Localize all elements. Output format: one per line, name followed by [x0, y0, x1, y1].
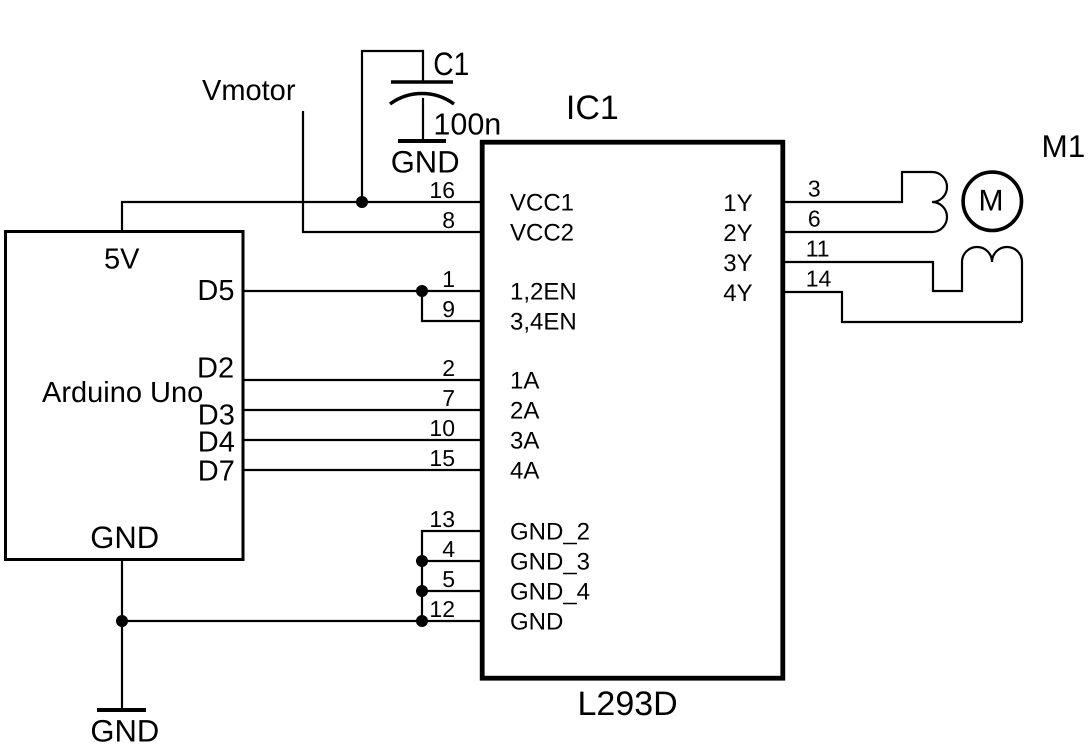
svg-text:GND: GND	[510, 609, 563, 636]
wire D4 to 3A	[243, 439, 480, 441]
svg-text:7: 7	[442, 385, 455, 411]
wire 1Y pin 3 to coil	[784, 172, 932, 202]
svg-text:2Y: 2Y	[723, 220, 752, 247]
wire D2 to 1A	[243, 379, 480, 381]
wire coil 2 right side down	[1021, 262, 1023, 322]
svg-text:15: 15	[429, 445, 455, 471]
svg-text:M1: M1	[1042, 128, 1086, 164]
svg-text:2: 2	[442, 355, 455, 381]
wire GND bus to pin 12	[122, 620, 480, 622]
svg-text:1,2EN: 1,2EN	[510, 279, 577, 306]
svg-text:1A: 1A	[510, 368, 539, 395]
svg-text:GND: GND	[90, 520, 159, 555]
svg-text:1: 1	[442, 266, 455, 292]
svg-text:4Y: 4Y	[723, 280, 752, 307]
capacitor C1 top wire	[362, 51, 423, 202]
ground symbol bottom	[97, 708, 146, 712]
wire Arduino GND down	[121, 560, 123, 711]
junction dot pin 12	[416, 615, 428, 627]
svg-text:Arduino Uno: Arduino Uno	[42, 377, 203, 409]
svg-text:9: 9	[442, 296, 455, 322]
svg-text:2A: 2A	[510, 398, 539, 425]
junction dot VCC1/C1	[356, 196, 368, 208]
svg-text:13: 13	[429, 506, 455, 532]
motor coil winding 2	[962, 247, 1022, 262]
ground symbol at C1	[398, 139, 446, 143]
svg-text:GND_4: GND_4	[510, 579, 590, 606]
svg-text:100n: 100n	[433, 107, 501, 141]
svg-text:VCC2: VCC2	[510, 220, 574, 247]
wire D7 to 4A	[243, 469, 480, 471]
capacitor C1 top plate	[391, 80, 453, 84]
svg-text:M: M	[979, 185, 1004, 218]
svg-text:IC1: IC1	[566, 89, 619, 127]
wire 4Y pin 14 to coil	[784, 292, 1022, 322]
svg-text:3,4EN: 3,4EN	[510, 309, 577, 336]
svg-text:14: 14	[806, 266, 832, 292]
wire D5 to 1,2EN	[243, 290, 480, 292]
svg-text:D2: D2	[197, 353, 234, 385]
wire GND_4 pin 5	[422, 590, 480, 592]
svg-text:10: 10	[429, 415, 455, 441]
wire GND_3 pin 4	[422, 560, 480, 562]
svg-text:L293D: L293D	[578, 685, 678, 723]
motor coil winding 1	[932, 172, 947, 232]
junction dot D5/EN	[416, 285, 428, 297]
svg-text:C1: C1	[433, 46, 469, 82]
svg-text:VCC1: VCC1	[510, 190, 574, 217]
svg-text:5: 5	[442, 566, 455, 592]
svg-text:GND: GND	[90, 714, 159, 749]
capacitor C1 bottom lead	[422, 98, 424, 141]
svg-text:4: 4	[442, 536, 455, 562]
wire D3 to 2A	[243, 409, 480, 411]
wire 2Y pin 6 to coil	[784, 231, 932, 233]
svg-text:1Y: 1Y	[723, 190, 752, 217]
svg-text:D7: D7	[198, 456, 235, 488]
svg-text:GND_2: GND_2	[510, 519, 590, 546]
svg-text:3A: 3A	[510, 428, 539, 455]
svg-text:5V: 5V	[104, 244, 140, 276]
svg-text:16: 16	[429, 177, 455, 203]
svg-text:3Y: 3Y	[723, 250, 752, 277]
svg-text:8: 8	[442, 207, 455, 233]
capacitor C1 curved plate	[390, 93, 454, 104]
motor M1 body circle	[963, 172, 1021, 230]
wire 5V to VCC1 net	[122, 202, 480, 231]
wire Vmotor to VCC2	[303, 111, 480, 232]
junction dot pin 4	[416, 555, 428, 567]
wire GND_2 pin 13	[422, 531, 480, 621]
junction dot pin 5	[416, 585, 428, 597]
svg-text:11: 11	[806, 236, 830, 262]
module A1 Arduino Uno body	[6, 232, 244, 560]
svg-text:GND_3: GND_3	[510, 549, 590, 576]
svg-text:D5: D5	[197, 275, 234, 307]
svg-text:12: 12	[429, 596, 455, 622]
svg-text:4A: 4A	[510, 458, 539, 485]
svg-text:3: 3	[808, 176, 821, 202]
svg-text:D4: D4	[198, 427, 235, 459]
wire 3Y pin 11 to coil	[784, 262, 962, 291]
wire stub to 3,4EN	[422, 291, 480, 321]
junction dot GND bus	[116, 615, 128, 627]
op IC1 L293D body	[482, 142, 783, 678]
svg-text:Vmotor: Vmotor	[202, 75, 296, 107]
svg-text:6: 6	[808, 206, 821, 232]
svg-text:GND: GND	[391, 145, 460, 180]
